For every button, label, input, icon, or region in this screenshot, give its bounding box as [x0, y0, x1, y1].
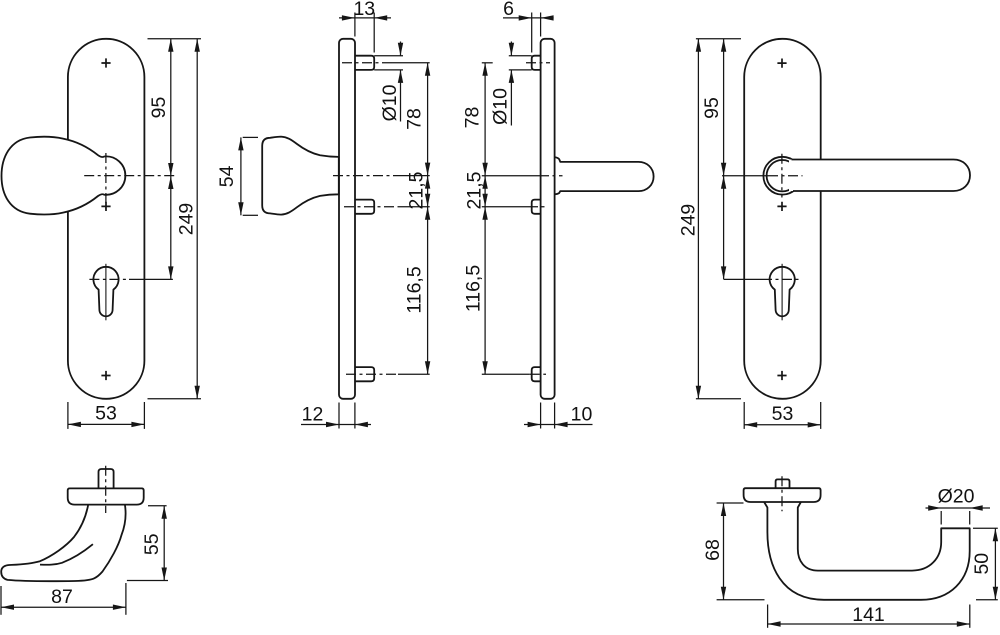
- view4 lever centre line vertical: [781, 154, 783, 198]
- view2 centre line top stud: [342, 62, 392, 64]
- svg-text:249: 249: [678, 204, 700, 237]
- dimension lever-to-cylinder (view4, unlabelled): [721, 176, 726, 280]
- view2 knob side profile: [262, 137, 339, 215]
- dimension O10 (view2 stud diameter): [374, 42, 403, 122]
- svg-text:249: 249: [175, 203, 197, 236]
- view5 spindle stub: [99, 469, 114, 488]
- view2 centre line knob axis: [333, 175, 396, 177]
- dimension 21,5 (view2): [406, 171, 431, 209]
- view1 extension line top: [148, 38, 202, 40]
- view6 rose flange outline: [744, 488, 821, 502]
- view1 knob centre line horizontal: [84, 175, 174, 177]
- view4 extension line bottom: [696, 398, 741, 400]
- dimension O20 (grip diameter): [926, 485, 991, 524]
- view4 keyhole centre line horizontal: [724, 278, 762, 280]
- dimension 95 (view4): [701, 39, 726, 176]
- dimension 13 (view2 stud length): [339, 0, 391, 53]
- dimension 95 (view1): [148, 39, 173, 176]
- view4 screw mark bottom: [777, 371, 786, 380]
- view1 door knob front silhouette: [2, 137, 126, 215]
- svg-text:78: 78: [462, 107, 484, 129]
- view4 lever grip outline: [792, 160, 971, 192]
- view1 screw mark top: [101, 58, 110, 67]
- dimension O10 (view3 stud diameter): [490, 42, 532, 126]
- view3 centre line middle stud: [482, 206, 528, 208]
- view4 screw mark middle: [777, 202, 786, 211]
- svg-text:116,5: 116,5: [404, 266, 426, 314]
- svg-text:13: 13: [353, 0, 375, 20]
- view3 centre line bottom stud: [482, 373, 530, 375]
- svg-text:Ø10: Ø10: [379, 84, 401, 121]
- svg-text:Ø20: Ø20: [938, 485, 975, 507]
- dimension 53 (view1): [68, 402, 144, 429]
- view2 centre line bottom stud: [346, 373, 398, 375]
- view5 spindle centre line: [105, 466, 107, 513]
- svg-text:95: 95: [148, 97, 170, 119]
- view6 lever handle U outline: [764, 502, 970, 600]
- dimension 116,5 (view3): [463, 207, 488, 375]
- dimension 68 (view6): [702, 503, 765, 600]
- svg-text:10: 10: [571, 404, 593, 426]
- view4 lever rose outer circle: [763, 157, 801, 195]
- svg-text:53: 53: [95, 403, 117, 425]
- view5 rose flange outline: [68, 488, 144, 504]
- dimension 21,5 (view3): [464, 171, 488, 209]
- view1 long plate outline (front, knob side): [68, 39, 144, 399]
- view3 lever handle side profile: [555, 157, 654, 194]
- dimension 141 (view6): [768, 604, 970, 628]
- view1 euro profile keyhole: [93, 267, 118, 316]
- dimension 54 (knob diameter): [216, 137, 258, 215]
- view1 extension line bottom: [148, 398, 202, 400]
- dimension 12 (view2 plate thickness): [301, 403, 371, 429]
- svg-text:21,5: 21,5: [464, 171, 486, 209]
- svg-text:6: 6: [503, 0, 514, 20]
- svg-text:68: 68: [702, 539, 724, 561]
- dimension 55 (view5 height): [127, 506, 168, 581]
- dimension 116,5 (view2): [404, 207, 431, 375]
- view5 handle horn outline: [1, 505, 125, 582]
- view4 screw mark top: [777, 59, 786, 68]
- view1 keyhole centre line horizontal: [89, 278, 129, 280]
- svg-text:21,5: 21,5: [406, 171, 428, 209]
- view3 centre line top stud: [482, 62, 493, 64]
- view3 screw stud bottom: [532, 367, 541, 381]
- view5 handle inner contour: [40, 544, 93, 565]
- view3 plate bar outline: [541, 39, 555, 399]
- dimension 50 (view6): [971, 528, 998, 600]
- dimension 78 (view3): [462, 63, 488, 176]
- view3 screw stud top: [532, 56, 541, 70]
- svg-text:54: 54: [216, 165, 238, 187]
- view4 lever rose inner circle: [767, 160, 798, 191]
- svg-text:78: 78: [404, 108, 426, 130]
- dimension 10 (view3 plate thickness): [524, 403, 593, 429]
- svg-text:Ø10: Ø10: [490, 88, 512, 125]
- dimension 87 (view5 projection): [1, 583, 126, 615]
- view4 lever centre line horizontal: [722, 175, 768, 177]
- view2 screw stud bottom: [355, 367, 374, 381]
- svg-text:55: 55: [141, 533, 163, 555]
- view4 lever grip fill: [789, 160, 970, 192]
- view4 long plate outline (front, lever side): [744, 39, 821, 399]
- view3 centre line handle axis: [482, 175, 539, 177]
- svg-text:141: 141: [852, 604, 885, 626]
- dimension 78 (view2): [404, 63, 431, 176]
- view1 knob centre line vertical: [105, 153, 107, 211]
- dimension 249 (view4): [678, 39, 701, 399]
- svg-text:12: 12: [302, 403, 324, 425]
- svg-text:95: 95: [701, 97, 723, 119]
- view3 screw stud middle: [532, 200, 541, 214]
- view2 plate bar outline: [339, 39, 355, 399]
- view2 screw stud middle: [355, 200, 374, 214]
- svg-text:116,5: 116,5: [463, 265, 485, 313]
- svg-text:53: 53: [772, 403, 794, 425]
- view1 keyhole centre line vertical: [105, 264, 107, 321]
- dimension 53 (view4): [744, 402, 821, 429]
- dimension 6 (view3 stud length): [503, 0, 554, 52]
- view4 euro profile keyhole: [770, 267, 795, 316]
- view6 spindle centre line: [781, 476, 783, 511]
- view2 screw stud top: [355, 56, 374, 70]
- svg-text:87: 87: [51, 586, 73, 608]
- view4 keyhole centre line vertical: [781, 264, 783, 321]
- view1 screw mark middle: [101, 202, 110, 211]
- dimension knob-to-cylinder (view1, unlabelled): [168, 176, 173, 279]
- view2 centre line middle stud: [344, 206, 398, 208]
- view4 extension line top: [696, 38, 741, 40]
- view1 screw mark bottom: [101, 371, 110, 380]
- svg-text:50: 50: [971, 553, 993, 575]
- dimension 249 (view1): [175, 39, 199, 399]
- view6 spindle stub: [776, 479, 790, 488]
